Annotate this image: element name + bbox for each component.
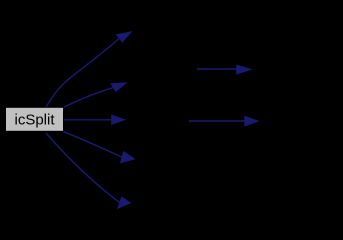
arrowhead A5 [118, 197, 131, 209]
arrowhead A4 [120, 151, 135, 163]
node strip top (black, cropped node) [0, 0, 343, 10]
arrowhead A1 [116, 32, 132, 43]
arrowhead R1 [237, 65, 252, 74]
wire edge A4 icSplit to fourth callee [64, 132, 122, 157]
node callee mid-right (black box) [262, 103, 343, 135]
arrowhead R2 [245, 116, 259, 126]
wire edge R1 upper-right horizontal [197, 68, 237, 70]
wire edge A1 icSplit to top callee (curved) [46, 38, 119, 107]
node caller left sliver (black, cropped node) [0, 103, 4, 135]
node icSplit (grey box) [6, 107, 64, 131]
wire edge A3 icSplit horizontal [64, 119, 112, 121]
wire edge A2 icSplit to second callee [64, 88, 113, 107]
node region bottom-right (black boxes) [137, 143, 343, 240]
svg-text:icSplit: icSplit [14, 112, 55, 129]
wire edge A5 icSplit to bottom callee (curved) [46, 133, 120, 203]
wire edge R2 lower-right horizontal [189, 120, 245, 122]
arrowhead A2 [111, 83, 127, 92]
node callee upper-right (black box) [255, 55, 343, 83]
arrowhead A3 [112, 115, 126, 125]
